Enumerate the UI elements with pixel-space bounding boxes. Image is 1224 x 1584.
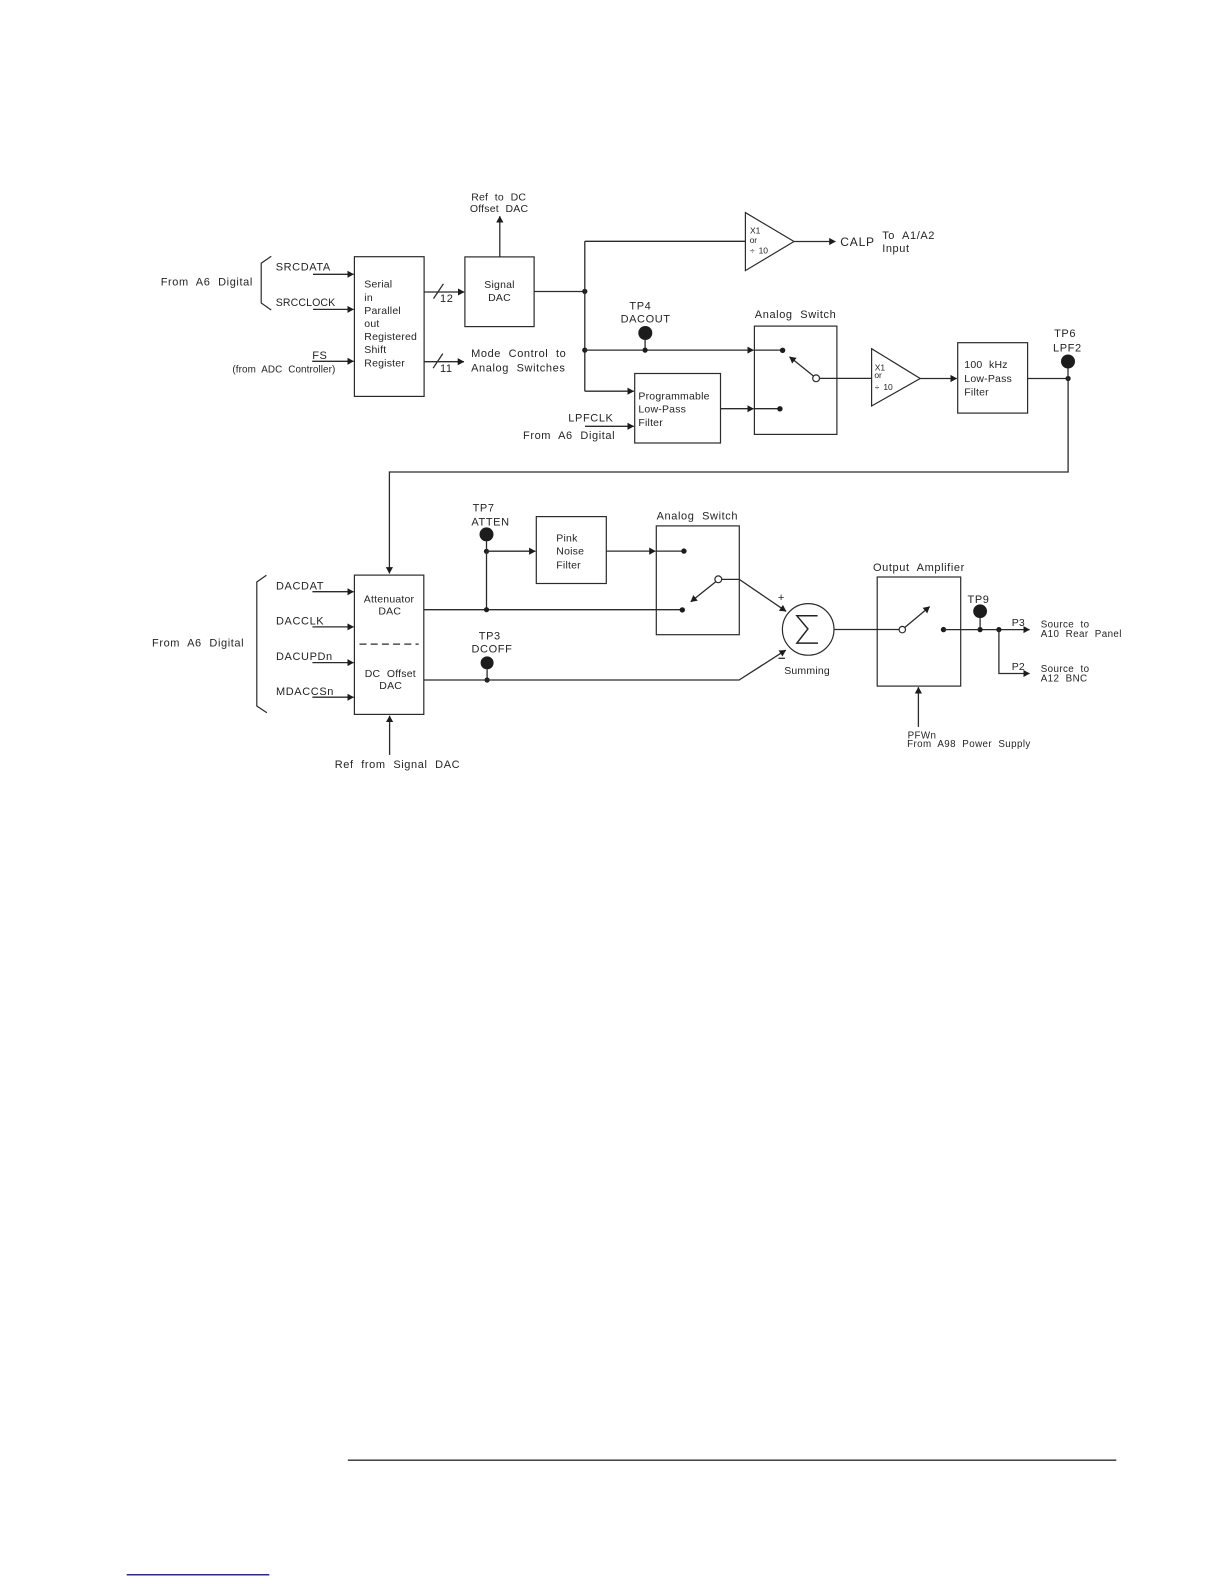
svg-text:MDACCSn: MDACCSn bbox=[276, 686, 334, 698]
block A3 Output Amplifier bbox=[873, 562, 965, 686]
svg-text:11: 11 bbox=[440, 363, 453, 375]
svg-text:Registered: Registered bbox=[364, 331, 417, 343]
svg-text:From A6 Digital: From A6 Digital bbox=[161, 277, 253, 289]
wire: attenuator DAC output to analog switch 2 bbox=[424, 609, 683, 611]
junction dot at analog switch feed bbox=[582, 348, 587, 353]
footer rule bbox=[348, 1459, 1117, 1461]
svg-text:TP4: TP4 bbox=[629, 301, 651, 313]
wire: CALP output bbox=[794, 241, 836, 243]
svg-text:Mode Control to: Mode Control to bbox=[471, 348, 566, 360]
block U1 Serial in Parallel out Registered Shift Register bbox=[354, 257, 424, 397]
node: Source to A10 Rear Panel label bbox=[1041, 620, 1122, 641]
svg-text:Summing: Summing bbox=[784, 665, 830, 677]
wire: 11-bit mode control bus bbox=[424, 354, 464, 376]
svg-text:Programmable: Programmable bbox=[638, 391, 709, 403]
test point TP6 LPF2 bbox=[1053, 328, 1082, 379]
wire: DC offset DAC output to summing - input bbox=[424, 650, 786, 680]
svg-text:Ref to DC: Ref to DC bbox=[471, 192, 526, 204]
block U4 100 kHz Low-Pass Filter bbox=[958, 343, 1028, 413]
wire: 100 kHz LPF output to node B bbox=[1028, 378, 1069, 380]
wire: switch input 1 inside bbox=[754, 349, 782, 351]
svg-text:From A6 Digital: From A6 Digital bbox=[523, 430, 615, 442]
svg-text:Serial: Serial bbox=[364, 279, 392, 291]
switch S1 pole and lever bbox=[790, 357, 820, 382]
svg-text:or: or bbox=[750, 235, 758, 245]
svg-text:DAC: DAC bbox=[379, 680, 402, 692]
svg-text:Output Amplifier: Output Amplifier bbox=[873, 562, 965, 574]
node: Ref to DC Offset DAC label bbox=[470, 192, 529, 215]
svg-text:Analog Switch: Analog Switch bbox=[657, 510, 739, 522]
wire: programmable LPF output to switch input 2 bbox=[721, 408, 754, 410]
wire DACDAT into attenuator DAC bbox=[312, 591, 353, 593]
footer blue link line bbox=[127, 1574, 270, 1576]
test point TP7 ATTEN bbox=[471, 503, 509, 554]
wire: summing output to output amplifier bbox=[834, 629, 899, 631]
svg-text:DACOUT: DACOUT bbox=[621, 313, 671, 325]
svg-text:P2: P2 bbox=[1012, 661, 1025, 673]
wire: node A down to programmable LPF bbox=[585, 390, 634, 392]
svg-text:SRCDATA: SRCDATA bbox=[276, 261, 331, 273]
svg-text:TP7: TP7 bbox=[473, 503, 495, 515]
switch S2 pole and lever bbox=[691, 576, 722, 602]
svg-text:Parallel: Parallel bbox=[364, 305, 401, 317]
wire: Signal DAC output to node A bbox=[534, 291, 585, 293]
svg-text:A10 Rear Panel: A10 Rear Panel bbox=[1041, 629, 1122, 640]
wire: PFWn arrow into output amplifier bottom bbox=[917, 687, 919, 727]
block U5 Attenuator DAC / DC Offset DAC bbox=[354, 575, 423, 714]
wire: Signal DAC ref output arrow up bbox=[499, 216, 501, 256]
node: switch 2 contact dot upper bbox=[681, 548, 686, 553]
node: P2/P3 branch junction dot bbox=[996, 627, 1001, 632]
wire: switch pole to amplifier A2 bbox=[820, 377, 872, 379]
brace for DAC control group bbox=[257, 575, 267, 712]
switch S3 pole and lever inside output amplifier bbox=[899, 607, 930, 633]
wire: ref from signal DAC arrow into DC offset DAC bottom bbox=[389, 716, 391, 755]
node: Source to A12 BNC label bbox=[1041, 664, 1090, 685]
svg-text:CALP: CALP bbox=[840, 235, 875, 249]
svg-text:TP9: TP9 bbox=[968, 594, 990, 606]
svg-text:TP3: TP3 bbox=[479, 630, 501, 642]
wire: A2 output to 100 kHz LPF bbox=[920, 378, 957, 380]
node PFWn From A98 Power Supply label bbox=[907, 730, 1031, 749]
svg-text:Offset DAC: Offset DAC bbox=[470, 203, 529, 215]
svg-text:÷ 10: ÷ 10 bbox=[750, 246, 768, 256]
amplifier A1 X1 or /10 (cal path) bbox=[745, 213, 794, 271]
wire: to cal amplifier bbox=[585, 240, 746, 242]
svg-text:DACUPDn: DACUPDn bbox=[276, 651, 333, 663]
brace for SRCDATA/SRCCLOCK group bbox=[261, 256, 271, 310]
svg-text:100 kHz: 100 kHz bbox=[964, 359, 1007, 371]
wire: pink noise filter output to switch 2 bbox=[606, 550, 655, 552]
node A junction dot bbox=[582, 289, 587, 294]
wire: branch down to P2 bbox=[999, 630, 1030, 674]
svg-text:To A1/A2: To A1/A2 bbox=[882, 230, 935, 242]
svg-text:DCOFF: DCOFF bbox=[472, 643, 513, 655]
svg-text:LPFCLK: LPFCLK bbox=[568, 412, 613, 424]
wire SRCDATA into shift register bbox=[313, 273, 354, 275]
svg-text:Filter: Filter bbox=[964, 387, 989, 399]
wire: TP7 node down to attenuator DAC output bbox=[486, 551, 488, 609]
svg-text:Pink: Pink bbox=[556, 532, 578, 544]
wire: output to P3 bbox=[944, 629, 1030, 631]
amplifier A2 X1 or /10 bbox=[872, 349, 921, 406]
block S1 Analog Switch (row 1) bbox=[754, 309, 837, 435]
svg-text:in: in bbox=[364, 292, 373, 304]
node: Mode Control to Analog Switches label bbox=[471, 348, 566, 374]
svg-text:DAC: DAC bbox=[378, 606, 401, 618]
svg-text:out: out bbox=[364, 318, 379, 330]
svg-text:Low-Pass: Low-Pass bbox=[964, 373, 1012, 385]
svg-text:÷ 10: ÷ 10 bbox=[875, 382, 893, 392]
svg-text:DAC: DAC bbox=[488, 292, 511, 304]
wire: TP7 node to pink noise filter bbox=[487, 550, 536, 552]
svg-text:DC Offset: DC Offset bbox=[365, 668, 416, 680]
node: minus label bbox=[779, 657, 786, 659]
block S2 Analog Switch (row 2) bbox=[656, 510, 739, 634]
block U3 Programmable Low-Pass Filter bbox=[635, 374, 721, 444]
svg-text:Low-Pass: Low-Pass bbox=[638, 404, 686, 416]
svg-text:Shift: Shift bbox=[364, 344, 386, 356]
svg-text:12: 12 bbox=[440, 293, 453, 305]
wire: switch 2 pole to summing + input bbox=[722, 579, 786, 611]
test point TP3 DCOFF bbox=[472, 630, 513, 682]
svg-text:Register: Register bbox=[364, 357, 405, 369]
wire: node A to analog switch input 1 bbox=[585, 349, 754, 351]
wire DACUPDn into attenuator DAC bbox=[312, 662, 353, 664]
svg-text:(from ADC Controller): (from ADC Controller) bbox=[232, 365, 335, 376]
svg-text:DACCLK: DACCLK bbox=[276, 616, 324, 628]
svg-text:SRCCLOCK: SRCCLOCK bbox=[276, 297, 336, 309]
junction dot TP7/attenuator output bbox=[484, 607, 489, 612]
svg-text:P3: P3 bbox=[1012, 617, 1025, 629]
wire SRCCLOCK into shift register bbox=[313, 308, 354, 310]
wire MDACCSn into attenuator DAC bbox=[312, 696, 353, 698]
svg-text:DACDAT: DACDAT bbox=[276, 580, 324, 592]
svg-text:or: or bbox=[874, 370, 882, 380]
svg-text:From A6 Digital: From A6 Digital bbox=[152, 637, 244, 649]
block U2 Signal DAC bbox=[465, 257, 534, 327]
wire DACCLK into attenuator DAC bbox=[312, 626, 353, 628]
block U6 Pink Noise Filter bbox=[536, 517, 606, 584]
node: output amplifier output dot bbox=[941, 627, 946, 632]
svg-text:Noise: Noise bbox=[556, 546, 584, 558]
svg-text:Analog Switches: Analog Switches bbox=[471, 362, 565, 374]
svg-text:+: + bbox=[778, 592, 785, 604]
wire: vertical bus at node A bbox=[584, 241, 586, 391]
node: switch contact dot 2 bbox=[777, 406, 782, 411]
svg-text:Filter: Filter bbox=[556, 559, 581, 571]
node: To A1/A2 Input label bbox=[882, 230, 935, 255]
svg-text:ATTEN: ATTEN bbox=[471, 516, 509, 528]
node: switch contact dot 1 bbox=[780, 348, 785, 353]
wire LPFCLK into programmable LPF bbox=[585, 425, 634, 427]
svg-text:X1: X1 bbox=[750, 226, 761, 236]
svg-text:Ref from Signal DAC: Ref from Signal DAC bbox=[335, 759, 461, 771]
node: switch 2 contact dot lower bbox=[680, 607, 685, 612]
svg-text:From A98 Power Supply: From A98 Power Supply bbox=[907, 739, 1031, 750]
test point TP4 DACOUT bbox=[621, 301, 671, 353]
svg-text:Input: Input bbox=[882, 243, 909, 255]
svg-text:Analog Switch: Analog Switch bbox=[755, 309, 837, 321]
svg-text:Attenuator: Attenuator bbox=[364, 594, 415, 606]
svg-text:Filter: Filter bbox=[638, 417, 663, 429]
wire: feedback route node B down-left to attenuator DAC bbox=[389, 379, 1068, 574]
svg-text:FS: FS bbox=[312, 350, 327, 362]
test point TP9 bbox=[968, 594, 990, 632]
summing junction U7 bbox=[782, 604, 834, 677]
node B junction dot bbox=[1066, 376, 1071, 381]
wire FS into shift register bbox=[312, 360, 353, 362]
svg-text:TP6: TP6 bbox=[1054, 328, 1076, 340]
svg-text:LPF2: LPF2 bbox=[1053, 342, 1082, 354]
svg-text:A12 BNC: A12 BNC bbox=[1041, 673, 1088, 684]
svg-text:Signal: Signal bbox=[484, 279, 514, 291]
wire: 12-bit bus shift register to Signal DAC bbox=[424, 284, 464, 305]
